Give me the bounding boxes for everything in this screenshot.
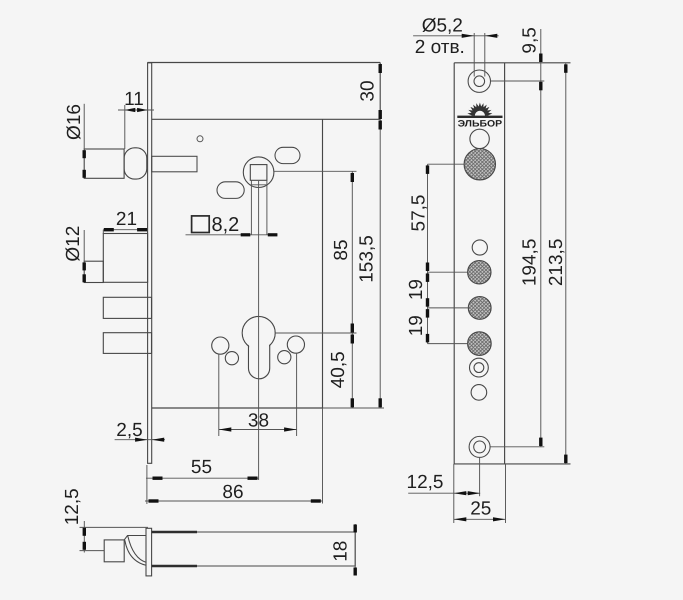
deadbolt throw 3 [103,333,151,354]
bottom hole centre line [479,457,481,496]
svg-text:194,5: 194,5 [519,239,540,287]
spindle hub U1 [243,157,274,188]
latch inner slot [152,156,197,172]
svg-text:2 отв.: 2 отв. [415,37,465,58]
plate hole (plain, below logo) [470,129,489,148]
bolt hole 2 (hatched) [468,297,491,320]
svg-text:11: 11 [124,89,144,110]
latch bolt head [124,148,147,179]
svg-text:30: 30 [358,80,379,101]
svg-text:85: 85 [331,239,352,260]
faceplate (edge view, left) [148,63,152,464]
dim 30 ticks [379,64,382,73]
svg-text:57,5: 57,5 [408,195,429,232]
svg-text:12,5: 12,5 [407,472,444,493]
svg-text:ЭЛЬБОР: ЭЛЬБОР [458,119,503,129]
leaders to holes [428,164,469,343]
oval slot upper [275,147,300,163]
top screw hole [468,70,490,92]
euro cylinder hole [242,317,275,379]
body bottom extension [323,407,385,409]
dim 12,5 right [408,492,480,494]
plate bottom corner extensions [454,464,506,523]
dim O16 [83,104,85,149]
svg-text:19: 19 [406,315,427,336]
hole centre extensions [490,81,544,447]
svg-text:2,5: 2,5 [116,420,142,441]
dim 8,2 leader [186,234,278,236]
svg-text:25: 25 [470,499,491,520]
deadbolt throw 1 [103,234,147,283]
dim 55 [146,477,259,479]
dim 38 [219,353,297,436]
svg-text:12,5: 12,5 [62,488,83,525]
svg-text:213,5: 213,5 [546,239,567,287]
right edge extension [322,408,324,504]
dim 40,5 ticks [351,335,354,344]
dim 11 [118,105,154,149]
O5,2 leader [413,35,499,37]
double ring hole [470,358,489,377]
oval slot lower [217,182,244,199]
svg-text:86: 86 [222,482,243,503]
latch bolt shaft [84,149,124,178]
svg-text:18: 18 [331,541,352,562]
dim 2,5 [115,439,165,441]
dim 9,5 / 194,5 line [540,29,542,447]
bolt hole 3 (hatched) [468,332,492,356]
rivet hole [197,136,203,142]
latch bevel [124,536,146,566]
svg-text:Ø16: Ø16 [64,104,85,140]
hub chord [250,184,267,186]
svg-text:Ø5,2: Ø5,2 [422,16,463,37]
side view body bar [152,532,356,566]
dim 86 [145,500,323,502]
lock body outline [148,63,381,409]
svg-text:9,5: 9,5 [520,27,541,53]
svg-text:153,5: 153,5 [357,235,378,283]
dim 153,5 [379,119,381,408]
dim 21 [103,230,147,234]
dim 85 [274,171,357,408]
dim 12,5 left [80,521,149,553]
ELBOR logo [457,104,502,129]
square symbol [192,216,210,233]
svg-text:38: 38 [248,411,269,432]
svg-text:55: 55 [191,457,212,478]
bottom screw hole [469,436,490,457]
square spindle hole 8.2 [250,165,267,181]
cylinder centre line [258,181,260,480]
plate outline [454,63,571,464]
O5,2 extension lines [474,33,485,77]
keyhole screw slot left [212,337,239,365]
svg-text:40,5: 40,5 [328,351,349,388]
bolt hole 1 (hatched) [468,261,491,284]
deadbolt 1 shaft [84,261,103,282]
plain hole small [471,385,487,401]
dim 213,5 line [565,63,567,464]
square hole extension lines [251,180,267,235]
dim 25 [454,518,506,520]
dim 18 [354,524,356,574]
svg-text:21: 21 [116,209,137,230]
dim O12 [83,230,85,261]
svg-text:19: 19 [406,279,427,300]
dim 57,5 / 19 / 19 line [427,164,429,343]
side view flange [146,528,152,576]
plain hole [472,240,487,255]
svg-text:8,2: 8,2 [212,214,240,236]
latch opening (hatched) [464,149,495,180]
keyhole screw slot right [278,336,305,364]
svg-text:Ø12: Ø12 [63,226,84,262]
side view latch [104,540,124,562]
deadbolt throw 2 [103,297,151,318]
